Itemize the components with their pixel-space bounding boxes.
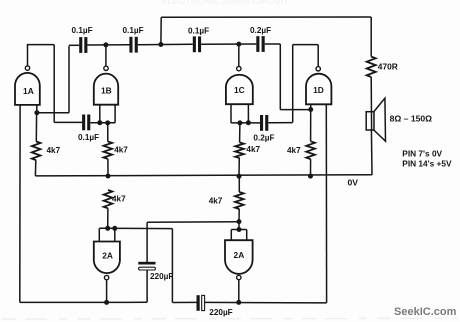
wire junction to riser xyxy=(37,112,69,114)
node junction 1B resistor tap xyxy=(105,120,110,125)
svg-text:0.2µF: 0.2µF xyxy=(253,134,274,143)
NAND gate 1D xyxy=(306,67,331,105)
capacitor C1 0.1µF xyxy=(72,26,93,53)
svg-text:1A: 1A xyxy=(23,86,34,96)
svg-text:4k7: 4k7 xyxy=(47,146,61,155)
wire stub down to 1B bubble xyxy=(105,45,107,66)
wire 2A-right hat bar xyxy=(231,229,246,231)
svg-text:4k7: 4k7 xyxy=(287,146,301,155)
wire down to 470R xyxy=(370,17,372,57)
faint scan streak xyxy=(2,317,458,320)
label speaker impedance xyxy=(390,114,433,124)
svg-text:0V: 0V xyxy=(348,178,359,188)
label pin7 note xyxy=(402,149,442,159)
wire 1C right input leg xyxy=(247,104,249,123)
capacitor C8 220µF (series) xyxy=(197,295,233,317)
wire C6 left to 1C inputs xyxy=(231,122,260,124)
wire 1D bubble stub up xyxy=(317,45,319,67)
svg-text:0.1µF: 0.1µF xyxy=(123,26,144,35)
wire 1B left input leg xyxy=(99,105,101,123)
node junction above 1C xyxy=(236,42,241,47)
wire stub up from junction xyxy=(160,17,162,44)
svg-text:ELECTRONIC SIREN CIRCUIT: ELECTRONIC SIREN CIRCUIT xyxy=(161,0,289,6)
NAND gate 2A (left) xyxy=(94,242,120,280)
wire C2 to C3 xyxy=(138,43,193,45)
node junction 1C resistor tap xyxy=(237,120,242,125)
svg-text:0.1µF: 0.1µF xyxy=(188,26,209,35)
label 0V net xyxy=(348,178,359,188)
wire 1D right leg long xyxy=(325,104,327,303)
capacitor C2 0.1µF xyxy=(123,26,144,52)
speaker LS1 xyxy=(366,98,385,141)
wire speaker to 0V rail xyxy=(370,130,373,175)
wire 2A-left leg b xyxy=(114,228,116,241)
wire 2A-right leg a xyxy=(230,230,232,241)
node junction 1A input xyxy=(34,110,39,115)
wire 2A-left output stub xyxy=(106,280,108,303)
svg-text:PIN 7's 0V: PIN 7's 0V xyxy=(402,149,442,159)
wire 1B right input leg xyxy=(114,105,116,123)
wire 2A-left leg a xyxy=(98,228,100,241)
svg-text:4k7: 4k7 xyxy=(114,146,128,155)
node junction feed to amplifier xyxy=(158,42,163,47)
NAND gate 2A (right) xyxy=(225,240,253,279)
wire 1A left input leg xyxy=(19,105,21,303)
svg-text:2A: 2A xyxy=(234,250,245,260)
svg-text:4k7: 4k7 xyxy=(246,145,260,154)
node rail junction R3 xyxy=(237,174,242,179)
resistor R1 4k7 xyxy=(32,113,61,176)
node junction 1B input left xyxy=(97,120,102,125)
wire drop to bottom cap xyxy=(171,229,173,303)
node bottom rail 2A-right output xyxy=(236,300,241,305)
wire 2A-right leg b xyxy=(246,230,248,241)
svg-text:PIN 14's +5V: PIN 14's +5V xyxy=(402,158,452,168)
wire 1A output vertical down xyxy=(53,45,55,123)
node rail junction R4 xyxy=(308,174,313,179)
wire 2A-left input bus xyxy=(99,227,172,229)
wire junction down to gate hat xyxy=(238,222,240,230)
node 2A-right input junction xyxy=(237,219,242,224)
node 2A-left right leg xyxy=(112,226,117,231)
node 2A-left resistor tap xyxy=(105,226,110,231)
wire 1A right input leg xyxy=(36,105,38,113)
wire 1D output to C6 xyxy=(268,122,293,124)
svg-text:2A: 2A xyxy=(102,250,113,260)
NAND gate 1A xyxy=(15,66,40,105)
wire C7 top riser xyxy=(146,222,148,262)
node rail junction R2 xyxy=(106,174,111,179)
resistor R5 470R xyxy=(367,57,398,77)
resistor R7 4k7 xyxy=(209,176,244,221)
wire C7 bottom to rail xyxy=(146,270,148,302)
wire riser up to top row xyxy=(68,46,70,113)
resistor R2 4k7 xyxy=(104,123,129,176)
node bottom rail 2A-left output xyxy=(104,300,109,305)
wire 0V rail xyxy=(35,175,372,176)
svg-text:1B: 1B xyxy=(101,86,112,96)
resistor R4 4k7 xyxy=(287,110,315,177)
svg-text:220µF: 220µF xyxy=(150,272,173,281)
wire C3 to C4 xyxy=(201,43,256,45)
wire 1C left input leg xyxy=(230,104,232,123)
svg-text:0.1µF: 0.1µF xyxy=(72,26,93,35)
node 2A-right hat junction xyxy=(237,227,242,232)
wire bottom rail right xyxy=(205,301,327,304)
svg-text:1C: 1C xyxy=(234,85,245,95)
wire C5 right to 1B inputs xyxy=(90,122,115,124)
capacitor C4 0.2µF xyxy=(250,26,271,52)
wire cross-coupling to 2A-right xyxy=(147,221,239,224)
svg-text:4k7: 4k7 xyxy=(209,196,223,205)
wire bottom rail left xyxy=(20,301,147,303)
wire C4 drop to 1D input xyxy=(279,44,281,110)
svg-text:470R: 470R xyxy=(378,62,398,72)
wire over 1D to left xyxy=(293,44,319,46)
resistor R3 4k7 xyxy=(235,123,260,176)
wire 2A-right output stub xyxy=(238,280,240,303)
wire stub down to 1C bubble xyxy=(238,44,240,66)
wire 1D left input leg xyxy=(310,104,312,110)
resistor R6 4k7 xyxy=(104,190,126,228)
faint cropped title text xyxy=(161,0,289,6)
wire top feed to 470R xyxy=(161,16,371,18)
svg-text:1D: 1D xyxy=(313,85,324,95)
NAND gate 1B xyxy=(94,66,118,105)
node junction above 1B xyxy=(103,42,108,47)
svg-text:4k7: 4k7 xyxy=(112,195,126,204)
capacitor C5 0.1µF (1A-1B coupling) xyxy=(78,115,99,143)
svg-text:8Ω – 150Ω: 8Ω – 150Ω xyxy=(390,114,433,124)
watermark SeekIC.com xyxy=(394,306,457,318)
capacitor C7 220µF xyxy=(138,262,173,281)
wire C4 right xyxy=(265,43,281,45)
wire from 1A output bubble up xyxy=(27,45,29,66)
svg-text:0.1µF: 0.1µF xyxy=(78,133,99,142)
wire 470R through speaker to rail xyxy=(370,77,372,130)
NAND gate 1C xyxy=(226,66,253,104)
svg-text:SeekIC.com: SeekIC.com xyxy=(394,306,457,318)
wire to capacitor C5 left xyxy=(54,121,82,123)
wire to C8 left plate xyxy=(172,301,196,303)
wire to 1D input node xyxy=(280,109,310,111)
node junction 1C right input xyxy=(246,120,251,125)
wire 1D output drop xyxy=(292,45,294,123)
node junction 1D input xyxy=(308,107,313,112)
wire C1 to C2 xyxy=(87,44,129,46)
svg-text:220µF: 220µF xyxy=(209,308,232,317)
capacitor C3 0.1µF xyxy=(188,26,209,52)
label pin14 note xyxy=(402,158,452,168)
svg-text:0.2µF: 0.2µF xyxy=(250,26,271,35)
wire 1A output horizontal xyxy=(27,44,54,46)
capacitor C6 0.2µF (1D-1C coupling) xyxy=(253,115,274,143)
wire riser to C1 xyxy=(69,44,79,46)
